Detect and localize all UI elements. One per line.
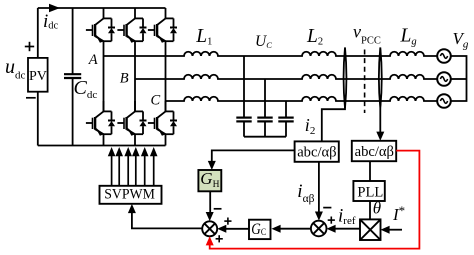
- svg-text:PV: PV: [29, 69, 47, 84]
- capacitor C_dc: [64, 8, 81, 146]
- abc/alphabeta block right: [352, 141, 396, 161]
- wire G_H to summer: [209, 191, 211, 214]
- svg-text:SVPWM: SVPWM: [104, 186, 155, 202]
- arrow i_dc on top bus: [49, 4, 60, 13]
- svg-text:A: A: [88, 52, 98, 68]
- wire phase A with L1 L2 Lg coils: [104, 52, 438, 56]
- wire leg C bottom: [165, 134, 167, 146]
- PCC dashed line: [364, 50, 366, 114]
- PV source box: [28, 58, 48, 92]
- grid source phase B: [437, 72, 451, 86]
- wire capacitor common rail: [244, 136, 286, 138]
- PCC separator right curve: [379, 48, 382, 109]
- wire multiplier to right summer (i_ref): [333, 228, 360, 230]
- wire abc-left to G_H: [212, 150, 295, 162]
- wire PV negative lead: [37, 92, 39, 146]
- wire abc-right to PLL: [369, 161, 371, 181]
- block G_C: [249, 220, 271, 239]
- svg-text:B: B: [120, 71, 129, 87]
- wire leg A bottom: [103, 134, 105, 146]
- wire grid neutral bus: [451, 56, 467, 101]
- filter capacitor phase C: [278, 101, 293, 137]
- grid source phase A: [437, 49, 451, 63]
- wire leg B bottom: [134, 134, 136, 146]
- label minus at right summer: [323, 207, 331, 209]
- label plus right at left summer: [224, 220, 231, 222]
- wire I* input: [387, 229, 402, 231]
- wire bottom DC bus: [38, 145, 166, 147]
- transistor Q6 (bottom leg C IGBT with diode): [148, 101, 177, 136]
- grid source phase C: [437, 94, 451, 108]
- wire vPCC tap to abc: [379, 108, 381, 133]
- summer (right sum junction): [311, 221, 327, 237]
- summer (left sum junction): [202, 221, 217, 236]
- svg-text:C: C: [151, 93, 161, 109]
- PCC separator left curve: [344, 48, 347, 109]
- multiplier block: [360, 219, 381, 240]
- wire PV positive lead: [37, 8, 39, 58]
- wire summer to SVPWM: [132, 211, 202, 229]
- red feedback wire: [210, 151, 420, 249]
- filter capacitor phase A: [236, 56, 251, 137]
- block G_H: [198, 169, 221, 191]
- svg-text:θ: θ: [373, 199, 381, 218]
- inverter legs: [104, 41, 166, 145]
- block PLL: [353, 181, 384, 201]
- transistor Q4 (bottom leg B IGBT with diode): [117, 101, 146, 136]
- wire leg B mid: [134, 41, 136, 111]
- label plus bottom at left summer: [216, 238, 223, 240]
- transistor Q2 (bottom leg A IGBT with diode): [86, 101, 115, 136]
- label + (PV): [25, 46, 34, 48]
- label − (PV): [26, 97, 36, 99]
- wire PLL to multiplier (theta): [369, 201, 371, 219]
- svg-text:abc/αβ: abc/αβ: [355, 144, 394, 160]
- transistor Q1 (top leg A IGBT with diode): [86, 8, 115, 43]
- phase wires with inductors: [104, 52, 438, 101]
- transistor Q3 (top leg B IGBT with diode): [117, 8, 146, 43]
- wire leg A mid: [103, 41, 105, 111]
- gate drive arrows: [108, 147, 158, 186]
- wire top DC bus: [38, 7, 166, 9]
- abc/alphabeta block left: [295, 141, 339, 161]
- label plus at right summer: [328, 219, 335, 221]
- wire i2 tap: [322, 101, 345, 141]
- wire phase B with L1 L2 Lg coils: [135, 75, 437, 79]
- transistor Q5 (top leg C IGBT with diode): [148, 8, 177, 43]
- wire phase C with L1 L2 Lg coils: [166, 97, 438, 101]
- wire G_C to left summer: [224, 228, 249, 230]
- wire abc-left to summer2 (i_alphabeta): [318, 162, 320, 214]
- label minus at left summer: [214, 208, 222, 210]
- svg-text:abc/αβ: abc/αβ: [297, 144, 336, 160]
- wire right summer to G_C: [280, 228, 311, 230]
- filter capacitor phase B: [257, 79, 272, 137]
- wire leg C mid: [165, 41, 167, 111]
- red feedback arrow: [206, 236, 214, 245]
- block SVPWM: [100, 186, 162, 204]
